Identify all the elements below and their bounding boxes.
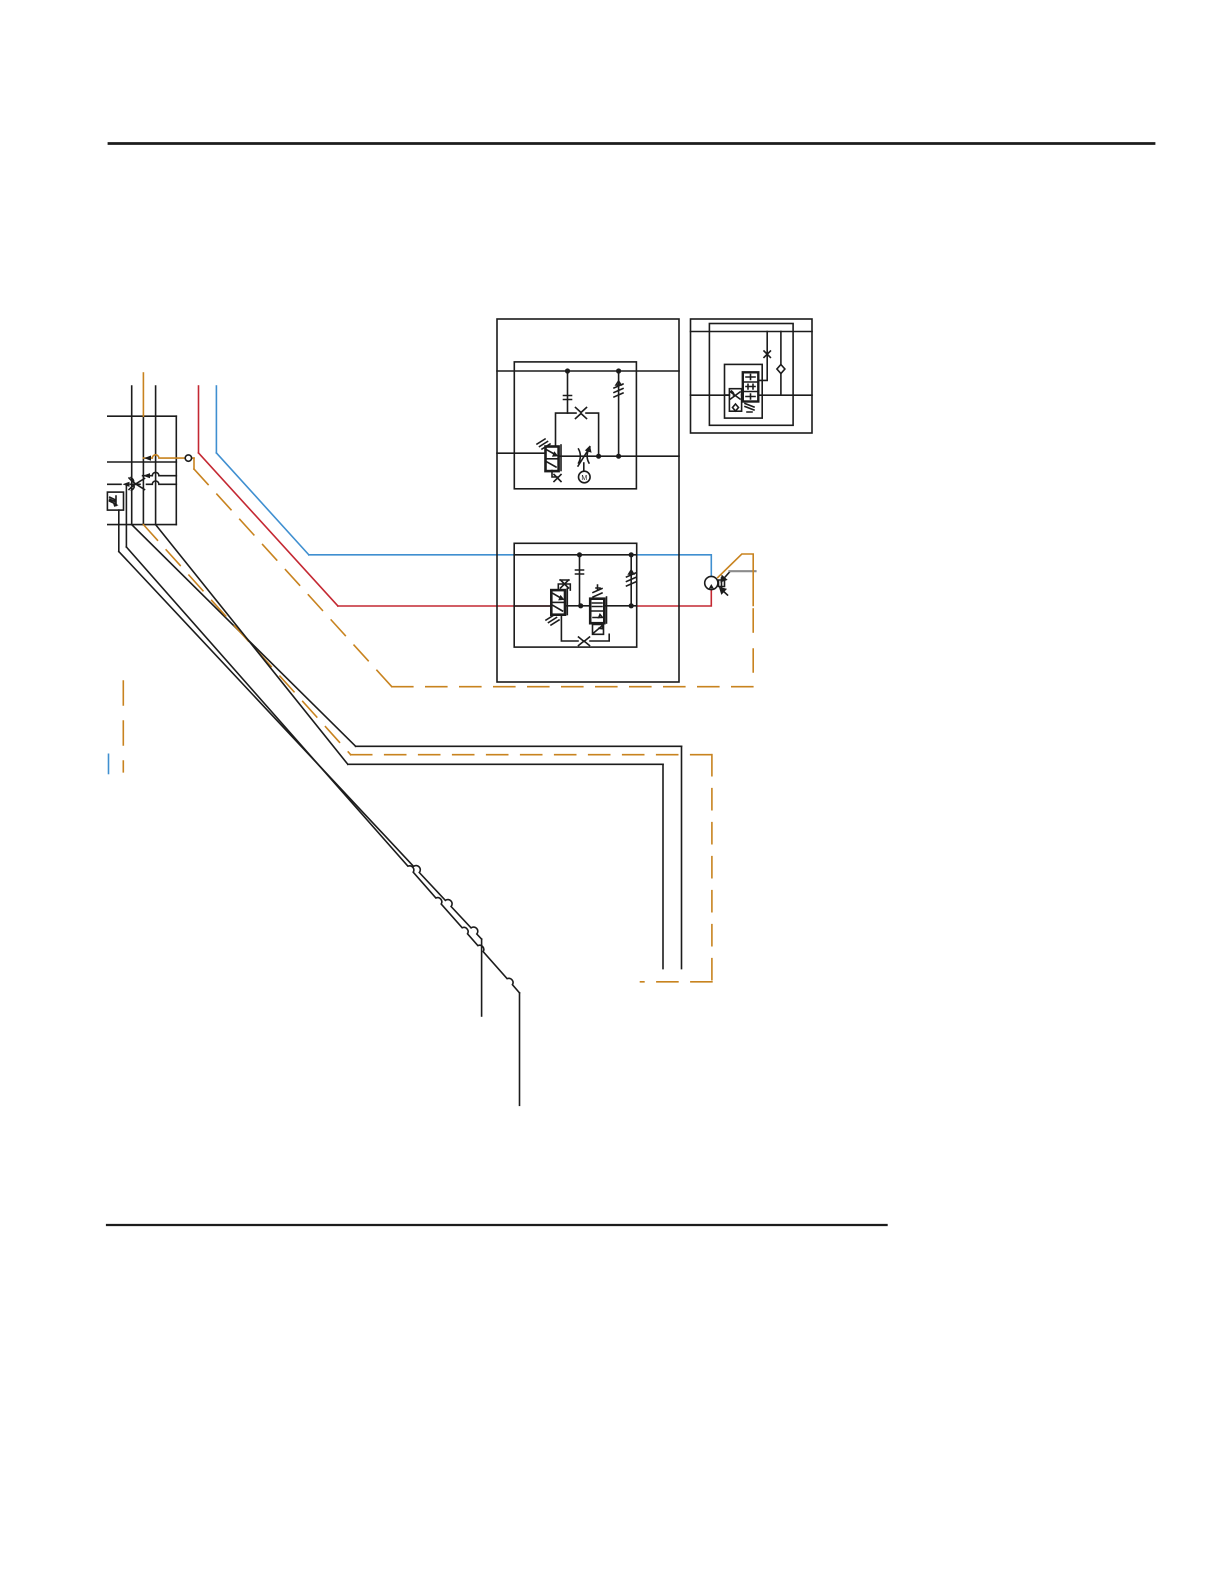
closed port x mark bbox=[764, 351, 770, 357]
junction dot bbox=[565, 368, 570, 373]
orange diagonal hose mid bbox=[143, 525, 350, 755]
gray shaft line bbox=[730, 570, 756, 572]
boost spool valve bbox=[551, 590, 565, 615]
relief valve box bbox=[107, 492, 123, 510]
wire stub down left bbox=[125, 484, 127, 547]
spool cell divider bbox=[546, 458, 559, 460]
spool side bar bbox=[560, 445, 562, 471]
drop D vertical bbox=[481, 939, 483, 1016]
orange dashed drop left bbox=[122, 681, 124, 772]
rail C to manifold bbox=[348, 763, 663, 765]
test point circle bbox=[185, 455, 191, 461]
junction dot bbox=[629, 552, 634, 557]
flow arrow T bbox=[123, 482, 130, 487]
rail A to manifold bbox=[356, 745, 682, 747]
orange drain from pump bbox=[718, 554, 753, 606]
variable orifice below bbox=[593, 625, 604, 635]
wire T with hops bbox=[108, 481, 177, 484]
boost red rail inside bbox=[514, 605, 551, 607]
spool arrows bbox=[547, 450, 557, 467]
orange drain dashed drop bbox=[752, 609, 754, 687]
aux pilot wire bbox=[758, 332, 767, 381]
top rule bbox=[109, 142, 1154, 145]
relief spring symbol bbox=[614, 381, 623, 397]
manifold drop A bbox=[681, 746, 683, 968]
aux inner box bbox=[709, 324, 793, 426]
wire vertical black 2 bbox=[155, 386, 157, 525]
junction dot bbox=[616, 368, 621, 373]
closed port X bbox=[576, 408, 587, 419]
aux spring bbox=[745, 404, 754, 413]
red hose to motor bbox=[637, 589, 712, 606]
junction dot bbox=[577, 552, 582, 557]
red diagonal hose bbox=[199, 453, 338, 606]
fan motor wire bbox=[583, 463, 585, 472]
drain X bbox=[579, 637, 590, 646]
aux branch wire bbox=[780, 332, 782, 396]
boost relief branch bbox=[630, 555, 632, 606]
bottom rule bbox=[107, 1224, 887, 1226]
aux small box bbox=[729, 389, 741, 412]
fan valve inner box bbox=[514, 362, 636, 489]
coupling arrow lower bbox=[720, 588, 728, 595]
blue stub left bbox=[108, 754, 110, 773]
orange wire corner down bbox=[193, 458, 195, 469]
spool cell divider bbox=[551, 601, 565, 603]
coupling box bbox=[719, 578, 725, 589]
pump flow triangle bbox=[709, 584, 714, 589]
relief valve symbol bbox=[110, 496, 117, 506]
wire A short bbox=[143, 472, 177, 475]
orange supply vertical bbox=[142, 373, 144, 416]
relief valve arrow bbox=[113, 502, 119, 507]
blue hose horizontal bbox=[309, 554, 514, 556]
reducing arrows bbox=[593, 603, 603, 618]
junction dot bbox=[596, 454, 601, 459]
fan motor bbox=[579, 471, 591, 483]
aux lower rail bbox=[691, 394, 813, 396]
aux cartridge valve bbox=[743, 372, 759, 401]
node line P bbox=[108, 461, 177, 463]
spool spring below bbox=[546, 615, 559, 625]
red hose horizontal bbox=[338, 605, 551, 607]
wire vertical black 3 bbox=[142, 416, 144, 524]
tractor valve box V1 right edge bbox=[175, 416, 177, 524]
orange case drain to coupler bbox=[641, 981, 712, 983]
orange drain dashed bottom bbox=[392, 686, 753, 688]
spool drain X bbox=[552, 471, 561, 482]
orange diagonal to pump drain bbox=[194, 469, 392, 687]
fan work rail bbox=[559, 455, 679, 457]
aux mid box bbox=[725, 364, 763, 418]
orifice ticks bbox=[576, 570, 584, 574]
aux top rail bbox=[691, 331, 813, 333]
blue SCV vertical bbox=[215, 386, 217, 453]
fan pressure rail bbox=[497, 370, 679, 372]
spool spring bbox=[537, 439, 550, 449]
flow arrow A bbox=[143, 473, 150, 478]
fan spool valve bbox=[546, 447, 559, 472]
reducing cell divider bbox=[590, 610, 604, 612]
blue hose to motor bbox=[637, 555, 712, 577]
wire from relief box down bbox=[118, 510, 120, 551]
black diagonal hose C bbox=[156, 525, 348, 765]
pilot X box above bbox=[558, 580, 570, 590]
coupling arrow upper bbox=[721, 572, 730, 582]
scissor crossing symbol bbox=[129, 478, 145, 491]
flow control symbol bbox=[578, 447, 591, 466]
relief spring symbol bbox=[627, 570, 636, 586]
wire vertical black 1 bbox=[131, 386, 133, 525]
fan pump motor circle bbox=[705, 576, 718, 589]
auxiliary relief outer box bbox=[691, 319, 813, 433]
cartridge dividers bbox=[743, 382, 759, 392]
spool arrows bbox=[553, 594, 563, 612]
blue diagonal hose bbox=[216, 453, 308, 555]
small box scissor bbox=[731, 391, 741, 399]
SCV enclosure box bbox=[497, 319, 679, 682]
relief branch wire bbox=[618, 371, 620, 456]
flow arrow orange line bbox=[144, 456, 151, 461]
boost mid rail bbox=[565, 605, 637, 607]
orifice ticks bbox=[564, 396, 572, 400]
pilot sub box bbox=[556, 413, 599, 456]
reducing spring top bbox=[593, 585, 602, 597]
fan valve left rail bbox=[497, 452, 546, 454]
spool side bar bbox=[566, 589, 568, 615]
aux link wire bbox=[725, 394, 743, 396]
junction dot bbox=[629, 603, 634, 608]
junction dot bbox=[616, 454, 621, 459]
long diagonal hose E bbox=[126, 547, 519, 993]
junction dot bbox=[578, 603, 583, 608]
boost pilot branch bbox=[579, 555, 581, 606]
reducing side bar bbox=[606, 597, 608, 623]
small box diamond bbox=[733, 404, 739, 411]
reducing valve bbox=[590, 599, 604, 624]
pilot branch wire bbox=[567, 371, 569, 413]
manifold drop C bbox=[662, 764, 664, 968]
orange case drain drop bbox=[711, 755, 713, 982]
tractor valve box V1 top edge bbox=[108, 415, 177, 417]
tractor valve box V1 bottom edge bbox=[108, 524, 177, 526]
long diagonal hose D bbox=[119, 552, 482, 940]
boost blue rail inside bbox=[514, 554, 637, 556]
boost drain loop bbox=[561, 615, 609, 641]
orange case drain rail bbox=[351, 754, 712, 756]
drop E vertical bbox=[519, 993, 521, 1105]
boost valve inner box bbox=[514, 543, 637, 647]
diamond symbol bbox=[777, 365, 785, 374]
cartridge check marks bbox=[746, 375, 755, 400]
orange test line with hop bbox=[143, 455, 194, 458]
svg-text:M: M bbox=[581, 475, 587, 482]
red SCV vertical bbox=[198, 386, 200, 453]
black diagonal hose A bbox=[132, 525, 356, 747]
